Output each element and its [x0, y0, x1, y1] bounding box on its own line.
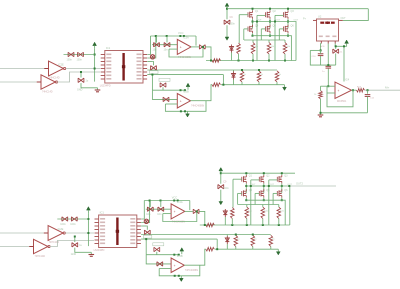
svg-text:OUT: OUT [257, 20, 262, 22]
transistor Q3 [284, 11, 289, 19]
resistor R9 [257, 71, 261, 82]
junction [166, 35, 168, 37]
capacitor C3 [78, 78, 84, 82]
label [266, 189, 270, 192]
svg-text:100n: 100n [77, 59, 83, 62]
wire oa2 out [184, 249, 206, 265]
wire oa2 fb [159, 265, 200, 276]
wire opamp1 out2 [206, 47, 212, 61]
capacitor C2 [78, 52, 84, 56]
svg-text:10n: 10n [153, 49, 158, 52]
junction [284, 60, 286, 62]
wire gate bot [244, 28, 248, 30]
junction [245, 185, 247, 187]
wire opamp1 out [185, 210, 193, 212]
ground [219, 199, 223, 205]
transistor Q3 [277, 175, 282, 183]
junction [87, 218, 89, 220]
label [178, 31, 184, 35]
svg-text:L6234PD: L6234PD [94, 248, 105, 252]
wire gate drop2 [250, 180, 252, 225]
wire sense drop [152, 62, 155, 66]
pin name [130, 225, 135, 227]
transistor Q6 [284, 25, 289, 33]
label [249, 175, 253, 178]
junction [269, 8, 271, 10]
wire gate bot [255, 192, 259, 194]
junction [94, 54, 96, 56]
wire source [245, 198, 247, 201]
svg-text:74HC4066N: 74HC4066N [185, 269, 198, 272]
supply VCC [180, 248, 184, 255]
wire res stub2 [252, 54, 254, 61]
wire phase [269, 19, 271, 28]
pin stub [44, 232, 48, 234]
wire vcc branch2 [226, 25, 228, 34]
svg-text:IC1: IC1 [106, 46, 111, 50]
junction [160, 200, 162, 202]
wire source [252, 33, 254, 36]
pin name [100, 236, 105, 238]
wire zener top [233, 70, 235, 72]
supply VCC [93, 42, 97, 49]
svg-text:IC1: IC1 [100, 211, 105, 215]
svg-text:+: + [174, 264, 176, 268]
wire pin out1 [147, 69, 277, 71]
label [178, 56, 191, 59]
label [291, 10, 295, 13]
capacitor C7 [154, 247, 160, 251]
label [318, 15, 322, 19]
jumper pad [150, 55, 154, 59]
wire cap row [64, 54, 95, 56]
junction [202, 46, 204, 48]
pin name [106, 54, 111, 56]
wire pin out1 [141, 234, 271, 236]
label [251, 184, 256, 186]
svg-text:74HC4066N: 74HC4066N [191, 105, 204, 108]
wire opamp1 out [191, 46, 199, 48]
pin name [137, 54, 142, 56]
IC current sensor U2 [313, 19, 343, 44]
capacitor C8 [157, 262, 163, 266]
wire res stub [278, 205, 280, 208]
svg-text:IC3B: IC3B [177, 254, 183, 258]
ground [179, 276, 183, 282]
junction [263, 172, 265, 174]
wire gate rail [238, 204, 279, 206]
svg-text:74HC14D: 74HC14D [35, 255, 46, 258]
wire oa3 in2 [327, 92, 335, 94]
op-amp IC4A [335, 82, 352, 99]
label [341, 17, 347, 20]
wire buffer1 out [65, 232, 94, 234]
pin name [100, 218, 105, 220]
transistor Q1 [242, 175, 247, 183]
transistor Q5 [266, 25, 271, 33]
label [303, 18, 307, 21]
wire cap stub [74, 237, 76, 243]
wire res stub [284, 40, 286, 43]
pin name [106, 71, 111, 73]
wire res bot2 [252, 247, 254, 250]
label [339, 52, 344, 54]
label [67, 59, 73, 62]
label [385, 86, 389, 90]
wire res bot3 [270, 247, 272, 250]
label [77, 89, 83, 92]
wire drain rail [227, 8, 368, 10]
pin name [106, 57, 111, 59]
pin name [130, 229, 135, 231]
capacitor C4 [147, 207, 153, 211]
label [345, 78, 350, 82]
transistor Q2 [259, 175, 264, 183]
wire c10 link [320, 50, 322, 53]
wire cap to gnd [75, 248, 92, 253]
label [157, 213, 162, 216]
svg-text:100n: 100n [230, 23, 236, 26]
junction [183, 35, 185, 37]
supply VCC [225, 3, 229, 10]
junction [268, 185, 270, 187]
junction [173, 254, 175, 256]
svg-text:IC4: IC4 [345, 78, 350, 82]
pin stub [44, 68, 48, 70]
wire r13 top [320, 86, 322, 90]
svg-text:74HC14D: 74HC14D [49, 77, 60, 80]
label [284, 189, 288, 192]
wire opamp1 in [146, 208, 171, 210]
wire gate top1 [233, 178, 242, 180]
pin name [106, 61, 111, 63]
label [249, 189, 253, 192]
wire buffer1 out [66, 68, 100, 70]
wire phase [287, 19, 289, 28]
wire gate drop3 [274, 15, 276, 60]
wire oa3 out [352, 89, 357, 91]
label [248, 211, 252, 213]
op-amp IC3B [171, 258, 184, 273]
svg-text:M+: M+ [385, 86, 389, 90]
ground [318, 113, 324, 117]
wire vcc vertical [94, 49, 96, 82]
capacitor C7 [160, 83, 166, 87]
junction [252, 8, 254, 10]
label [266, 175, 270, 178]
resistor R10 [275, 71, 279, 82]
label [287, 184, 292, 186]
wire res bot1 [235, 247, 237, 250]
label [183, 90, 189, 94]
wire net input A [0, 68, 44, 70]
label [35, 255, 46, 258]
wire oa2 link [151, 75, 153, 91]
wire cap stub [80, 72, 82, 78]
wire phase C net [287, 185, 336, 187]
wire gate drop2 [256, 15, 258, 60]
wire drain [252, 9, 254, 11]
wire pin sense [141, 225, 147, 227]
wire res stub2 [284, 54, 286, 61]
svg-text:74HC4066N: 74HC4066N [178, 56, 191, 59]
IC driver L6234 U1 [95, 215, 141, 248]
junction [252, 35, 254, 37]
junction [268, 60, 270, 62]
wire phase rail [253, 22, 297, 61]
wire gate drop1 [232, 179, 234, 207]
ground [276, 249, 280, 255]
junction [256, 21, 258, 23]
IC driver L6234 U1 [101, 51, 147, 84]
junction [178, 254, 180, 256]
wire vcc branch2 [220, 190, 222, 199]
ground [283, 85, 287, 91]
junction [94, 68, 96, 70]
svg-text:74HC4066N: 74HC4066N [172, 221, 185, 224]
junction [87, 232, 89, 234]
junction [287, 8, 289, 10]
wire oa2 top [152, 89, 186, 91]
wire vcc branch [220, 174, 222, 184]
label [223, 187, 229, 190]
svg-text:+: + [180, 99, 182, 103]
label [255, 25, 259, 28]
label [58, 227, 64, 231]
junction [258, 69, 260, 71]
label [100, 84, 111, 88]
transistor Q2 [266, 11, 271, 19]
inverter IC2Fb [34, 239, 51, 253]
wire net input A [0, 232, 44, 234]
wire pin out2 [147, 74, 223, 76]
label [70, 223, 76, 226]
label [146, 213, 151, 216]
wire c10 stub [320, 44, 323, 51]
wire gate bot drop [260, 29, 262, 40]
pin name [137, 71, 142, 73]
pin name [106, 75, 111, 77]
wire zener bot [233, 80, 235, 85]
label [49, 241, 60, 244]
svg-text:+: + [180, 46, 182, 50]
wire to opamp top [343, 46, 345, 81]
capacitor C5 [164, 43, 170, 47]
label [77, 59, 83, 62]
label [269, 184, 274, 186]
wire gate bot [238, 192, 242, 194]
wire res stub [262, 205, 264, 208]
op-amp IC3A [171, 204, 185, 219]
svg-text:100n: 100n [67, 59, 73, 62]
junction [241, 69, 243, 71]
junction [269, 35, 271, 37]
resistor R9 [251, 235, 255, 246]
junction [155, 35, 157, 37]
svg-text:OUT: OUT [294, 20, 299, 22]
wire zener stub [224, 217, 226, 225]
svg-text:10n: 10n [164, 49, 169, 52]
wire gate top3 [275, 14, 284, 16]
label [279, 74, 282, 76]
svg-text:OUT: OUT [269, 184, 274, 186]
wire source [287, 33, 289, 36]
junction [177, 200, 179, 202]
resistor R gate [261, 207, 265, 219]
wire res stub [246, 205, 248, 208]
wire buffer2 out [57, 72, 101, 82]
wire gate bot drop [272, 193, 274, 204]
wire pin VB [147, 36, 156, 58]
inverter IC2F [41, 75, 58, 89]
label [42, 91, 53, 94]
wire oa3 in1 [321, 85, 336, 87]
pin name [137, 75, 142, 77]
transistor Q1 [248, 11, 253, 19]
junction [184, 89, 186, 91]
junction [210, 60, 212, 62]
op-amp IC3B [177, 94, 190, 109]
capacitor C10 [318, 54, 324, 56]
resistor R7 [212, 59, 221, 63]
transistor Q4 [242, 189, 247, 197]
label [273, 10, 277, 13]
zener D1 [230, 45, 234, 53]
junction [250, 185, 252, 187]
resistor R gate [283, 43, 287, 55]
label [79, 244, 82, 247]
pin name [100, 225, 105, 227]
wire r13 bot [320, 99, 322, 113]
label [255, 10, 259, 13]
capacitor C11 [333, 49, 339, 53]
wire res stub2 [278, 219, 280, 226]
wire sense drop [146, 226, 149, 230]
wire gate bot [273, 192, 277, 194]
pin name [137, 64, 142, 66]
resistor R10 [269, 235, 273, 246]
label [255, 46, 259, 48]
junction [252, 21, 254, 23]
junction [367, 89, 369, 91]
label [150, 71, 159, 74]
wire cap stub [156, 252, 158, 255]
wire res bot1 [241, 82, 243, 85]
junction [327, 85, 329, 87]
pin name [130, 236, 135, 238]
wire source rail [253, 36, 292, 61]
supply VCC [186, 83, 190, 90]
svg-text:IC3B: IC3B [183, 90, 189, 94]
label [244, 74, 247, 76]
pin name [130, 218, 135, 220]
junction [281, 185, 283, 187]
svg-text:U2: U2 [318, 15, 322, 19]
resistor R11 [206, 247, 215, 251]
label [177, 254, 183, 258]
wire oa2 fb [165, 101, 206, 112]
wire phase [263, 184, 265, 193]
wire res stub2 [268, 54, 270, 61]
label [314, 94, 317, 96]
capacitor C14 [326, 66, 332, 68]
junction [287, 35, 289, 37]
wire c12 stub [367, 90, 369, 94]
svg-text:L6234PD: L6234PD [100, 84, 111, 88]
wire cap stub [166, 36, 168, 42]
wire rail to sensor [343, 9, 369, 21]
wire source rail [246, 200, 285, 225]
svg-text:VCC: VCC [178, 31, 184, 35]
resistor R gate [267, 43, 271, 55]
label [172, 221, 185, 224]
svg-text:10n: 10n [157, 213, 162, 216]
junction [320, 112, 322, 114]
junction [287, 21, 289, 23]
wire gate top2 [251, 179, 259, 181]
wire opamp1 out2 [199, 211, 205, 225]
wire source [281, 198, 283, 201]
wire oa2 in2 [165, 103, 177, 105]
wire phase [252, 19, 254, 28]
label [172, 196, 178, 200]
label [320, 45, 325, 48]
wire c10 down [320, 56, 322, 65]
transistor Q6 [277, 189, 282, 197]
wire oa2 top [146, 254, 180, 256]
wire sense2 [216, 239, 218, 249]
junction [231, 224, 233, 226]
junction [352, 89, 354, 91]
pin name [137, 61, 142, 63]
label [153, 49, 158, 52]
junction [180, 89, 182, 91]
wire rail drop [195, 36, 197, 46]
ground [89, 252, 95, 256]
junction [274, 21, 276, 23]
wire cap stub [160, 201, 162, 207]
wire oa2 in2 [159, 268, 171, 270]
pin name [100, 232, 105, 234]
label [291, 25, 295, 28]
junction [145, 238, 147, 240]
supply VCC [345, 40, 349, 47]
wire cap stub [156, 36, 158, 42]
label [223, 181, 227, 184]
label [237, 239, 240, 241]
wire drain [245, 173, 247, 175]
svg-text:OUT: OUT [341, 17, 347, 20]
label [271, 46, 275, 48]
wire net input B [0, 81, 37, 83]
junction [252, 234, 254, 236]
svg-text:MCP601: MCP601 [337, 100, 347, 103]
junction [245, 199, 247, 201]
junction [173, 200, 175, 202]
svg-text:74HC14D: 74HC14D [42, 91, 53, 94]
wire feedback1 [169, 47, 203, 57]
wire vcc vertical [87, 213, 89, 246]
wire net input B [0, 246, 29, 248]
wire out net M+ [365, 89, 400, 91]
resistor R8 [240, 71, 244, 82]
ground [95, 88, 101, 92]
wire source [263, 198, 265, 201]
junction [246, 224, 248, 226]
resistor R gate [277, 207, 281, 219]
wire rail gnd2 [215, 248, 278, 250]
pin name [106, 64, 111, 66]
